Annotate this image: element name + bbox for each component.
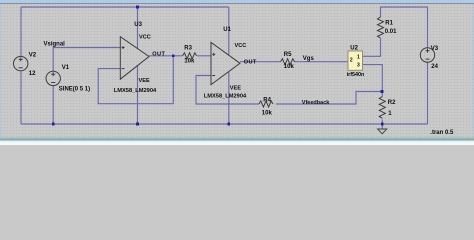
wire R5 to U2 gate xyxy=(294,61,348,63)
svg-text:V3: V3 xyxy=(431,46,439,52)
schematic background xyxy=(0,0,474,145)
svg-text:10k: 10k xyxy=(284,64,295,70)
wire U1 out to R5 xyxy=(240,61,281,63)
wire V2 top drop xyxy=(20,7,22,57)
svg-text:R4: R4 xyxy=(263,97,271,103)
svg-text:10k: 10k xyxy=(262,110,273,116)
svg-text:VEE: VEE xyxy=(139,78,150,84)
wire R1 top to rail xyxy=(381,7,428,48)
svg-text:Vsignal: Vsignal xyxy=(44,42,66,48)
svg-text:OUT: OUT xyxy=(152,52,165,58)
voltage source V2 xyxy=(14,56,28,70)
svg-text:.tran 0.5: .tran 0.5 xyxy=(430,130,454,136)
svg-text:3: 3 xyxy=(357,62,360,68)
wire V2 bottom to rail xyxy=(20,71,22,124)
resistor R5 xyxy=(281,59,295,65)
svg-text:R1: R1 xyxy=(385,21,393,27)
svg-text:VEE: VEE xyxy=(230,86,241,92)
wire U3 feedback loop xyxy=(98,56,173,104)
wire V1 bottom xyxy=(52,85,54,124)
svg-text:LMX58_LM2904: LMX58_LM2904 xyxy=(114,88,157,94)
wire top rail left xyxy=(21,6,229,8)
window side borders xyxy=(0,0,474,140)
op-amp U3 triangle xyxy=(120,37,149,79)
svg-text:2: 2 xyxy=(350,58,353,64)
svg-text:VCC: VCC xyxy=(139,35,151,41)
junction source node xyxy=(381,90,384,93)
svg-text:LMX58_LM2904: LMX58_LM2904 xyxy=(204,94,247,100)
svg-text:Vgs: Vgs xyxy=(303,56,315,62)
wire U3 VCC drop xyxy=(137,7,139,49)
svg-text:U2: U2 xyxy=(350,46,358,52)
junction rail R2 xyxy=(381,123,384,126)
wire ground stub xyxy=(381,124,383,129)
junction rail V1 xyxy=(52,123,55,126)
wire R3 to U1 plus xyxy=(197,55,211,57)
junction top rail xyxy=(136,6,139,9)
svg-text:irf540n: irf540n xyxy=(347,72,365,78)
svg-text:1: 1 xyxy=(357,55,360,61)
wire U1 feedback to R4 xyxy=(196,76,259,105)
wire bottom rail xyxy=(21,123,428,125)
junction rail U1 VEE xyxy=(227,123,230,126)
junction rail U3 VEE xyxy=(136,123,139,126)
wire U3 out to R3 xyxy=(149,55,183,57)
wire V3 bottom xyxy=(427,62,429,124)
svg-text:Vfeedback: Vfeedback xyxy=(302,100,330,106)
svg-text:U1: U1 xyxy=(223,27,231,33)
svg-text:OUT: OUT xyxy=(244,59,257,65)
resistor R2 xyxy=(379,97,385,119)
ground symbol xyxy=(378,129,387,134)
bottom status strip xyxy=(0,137,474,145)
top window strip xyxy=(0,0,474,4)
svg-text:V2: V2 xyxy=(29,52,37,58)
svg-text:V1: V1 xyxy=(62,65,70,71)
svg-text:10k: 10k xyxy=(184,59,195,65)
voltage source V3 xyxy=(420,48,434,62)
svg-text:R3: R3 xyxy=(184,46,192,52)
wire R4 to source node xyxy=(276,92,382,105)
wire U1 VEE drop xyxy=(228,72,230,124)
mosfet U2 box xyxy=(348,51,363,70)
svg-text:24: 24 xyxy=(431,64,438,70)
wire U1 VCC drop xyxy=(228,7,230,55)
resistor R1 xyxy=(378,17,384,38)
resistor R4 xyxy=(259,101,273,107)
svg-text:U3: U3 xyxy=(134,22,142,28)
resistor R3 xyxy=(183,53,197,59)
voltage source V1 xyxy=(46,71,60,85)
svg-text:12: 12 xyxy=(29,71,36,77)
svg-text:R5: R5 xyxy=(284,52,292,58)
wire U2 drain to R1 xyxy=(363,39,381,57)
wire R2 stubs xyxy=(381,92,383,125)
wire Vsignal xyxy=(53,48,120,72)
svg-text:VCC: VCC xyxy=(235,43,247,49)
svg-text:0.01: 0.01 xyxy=(385,29,397,35)
junction U3 out xyxy=(172,54,175,57)
svg-text:R2: R2 xyxy=(388,100,396,106)
op-amp U1 triangle xyxy=(211,42,240,84)
wire U3 VEE drop xyxy=(137,66,139,124)
svg-text:SINE(0 5 1): SINE(0 5 1) xyxy=(59,87,90,93)
wire U2 source down xyxy=(363,65,383,92)
